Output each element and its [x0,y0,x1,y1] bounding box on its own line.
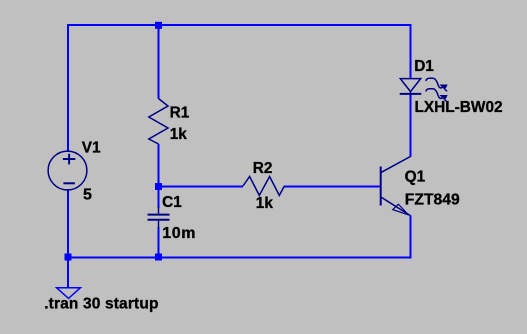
wire R2 right horizontal [284,185,380,187]
svg-text:1k: 1k [170,126,188,143]
junction top (R1/top rail) [155,22,162,29]
LED light arrow upper head [441,85,447,89]
wire bottom horizontal [67,256,412,258]
wire emitter bottom vertical [410,216,412,259]
junction middle (R1/C1/R2 tee) [155,183,162,190]
diode D1 apex stub [410,91,412,94]
LED light arrow lower tip [444,99,447,102]
voltage source V1 circle [48,151,87,190]
V1 plus sign [63,154,75,165]
wire collector top vertical [410,24,412,78]
wire left vertical upper (V1 top) [67,24,69,152]
capacitor C1 symbol stubs [158,207,160,228]
resistor R1 zigzag [149,99,168,145]
transistor Q1 base bar [380,167,382,206]
diode D1 LED triangle [400,79,420,92]
wire R1 top vertical [158,24,160,99]
svg-text:.tran 30 startup: .tran 30 startup [44,295,158,312]
wire left vertical lower (V1 bottom) [67,190,69,259]
svg-text:LXHL-BW02: LXHL-BW02 [415,99,503,116]
wire top horizontal [67,24,412,26]
wire R2 left horizontal [160,185,244,187]
svg-text:V1: V1 [82,139,101,156]
diode D1 cathode bar [400,93,422,95]
LED light arrow lower head [441,96,447,100]
transistor Q1 collector diagonal [381,156,411,172]
svg-text:1k: 1k [256,195,274,212]
ground symbol [57,288,81,299]
V1 minus sign [63,182,75,184]
transistor Q1 emitter diagonal [381,197,411,216]
svg-text:C1: C1 [162,194,182,211]
LED light arrow upper tip [444,89,447,92]
capacitor C1 plates [148,215,170,220]
LED light arrow upper squiggle [426,78,443,88]
svg-text:5: 5 [83,186,92,204]
transistor Q1 emitter arrowhead [393,204,409,215]
svg-text:D1: D1 [414,58,434,75]
svg-text:Q1: Q1 [405,169,426,186]
LED light arrow lower squiggle [426,89,443,99]
wire C1 bottom stub [158,227,160,258]
svg-text:FZT849: FZT849 [405,192,460,209]
wire C1 top stub [158,186,160,208]
wire R1 bottom vertical [158,144,160,187]
resistor R2 zigzag [243,177,284,196]
svg-text:10m: 10m [162,225,196,242]
junction bottom (C1/bottom rail) [155,254,162,261]
wire LED to collector vertical [410,95,412,157]
wire ground stub [67,256,69,287]
svg-text:R1: R1 [170,104,190,121]
svg-text:R2: R2 [253,160,273,177]
junction ground tee [65,254,72,261]
